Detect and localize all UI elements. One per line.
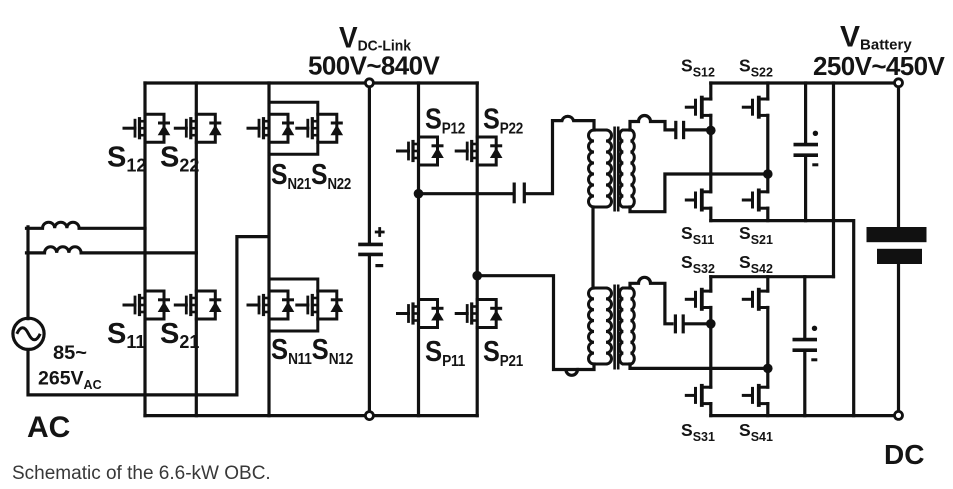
label 250V~450V xyxy=(813,51,945,81)
wire: SP leg 1 xyxy=(417,83,420,416)
svg-text:85~: 85~ xyxy=(53,342,87,364)
transistor SS31 xyxy=(686,386,711,405)
svg-text:500V~840V: 500V~840V xyxy=(308,51,440,81)
label 500V~840V xyxy=(308,51,440,81)
wire: SS leg3 segments xyxy=(709,277,712,416)
transistor S11 xyxy=(124,291,170,319)
wire: SS leg2 upper segments xyxy=(766,83,769,221)
wire: SS leg1 upper segments xyxy=(709,83,712,221)
label S22 xyxy=(160,141,199,175)
capacitor Co2 (output filter, lower) xyxy=(793,326,818,360)
transistor SS11 xyxy=(686,190,711,209)
wire: DC-link cap bottom leg xyxy=(368,256,371,411)
label V_Battery xyxy=(840,21,912,54)
transistor SP22 xyxy=(456,137,502,165)
svg-text:S11: S11 xyxy=(107,318,145,352)
node: SS leg4 transformer node xyxy=(763,364,773,374)
transformer T1 secondary winding xyxy=(620,130,635,207)
wire: battery rail top xyxy=(897,87,900,227)
capacitor Cs1 (secondary blocking, upper) xyxy=(676,121,684,139)
transistor SS21 xyxy=(743,190,768,209)
transistor SS42 xyxy=(743,290,768,309)
label SS12 xyxy=(681,56,715,80)
svg-text:VBattery: VBattery xyxy=(840,21,912,54)
wire: L1 output to phase leg 1 xyxy=(79,227,145,230)
svg-text:250V~450V: 250V~450V xyxy=(813,51,945,81)
svg-text:SS32: SS32 xyxy=(681,252,715,276)
wire: blocking cap to T1 primary top xyxy=(526,116,594,193)
node: SS leg3 cap node xyxy=(706,319,716,329)
svg-text:SP21: SP21 xyxy=(483,336,524,370)
wire: Co1 legs xyxy=(804,83,807,221)
label SN21 SN22 xyxy=(271,159,351,193)
transistor SN11 xyxy=(248,291,294,319)
node: SP leg2 midpoint xyxy=(472,271,482,281)
wire: T1 secondary top lead xyxy=(630,116,673,131)
label S12 xyxy=(107,141,146,175)
label S11 xyxy=(107,318,145,352)
transistor S12 xyxy=(124,114,170,142)
label DC xyxy=(884,439,924,470)
wire: AC hot riser xyxy=(26,227,29,319)
wire: SS lower-bridge top rail xyxy=(711,275,834,278)
node: battery negative port xyxy=(895,411,903,419)
label SS42 xyxy=(739,252,773,276)
transistor SP12 xyxy=(398,137,444,165)
battery VBattery xyxy=(867,227,927,264)
wire: Cs1 to SS leg1 node xyxy=(686,128,711,131)
svg-text:S21: S21 xyxy=(160,318,199,352)
node: DC-link positive port xyxy=(365,79,373,87)
svg-text:SS11: SS11 xyxy=(681,223,714,247)
label SS41 xyxy=(739,420,773,444)
wire: SS lower-bridge bottom rail xyxy=(711,414,895,417)
label SS32 xyxy=(681,252,715,276)
transistor SP11 xyxy=(398,300,444,328)
svg-text:S12: S12 xyxy=(107,141,146,175)
label SN11 SN12 xyxy=(271,334,353,368)
svg-text:SS21: SS21 xyxy=(739,223,773,247)
wire: SN11/SN12 paralleling loop xyxy=(269,279,318,331)
node: DC-link negative port xyxy=(365,412,373,420)
transistor SN22 xyxy=(297,114,343,142)
wire: T1 primary bottom to T2 primary top xyxy=(591,207,594,288)
transformer T1 core xyxy=(615,127,619,212)
caption xyxy=(12,463,271,484)
label AC xyxy=(27,411,70,444)
transistor SS22 xyxy=(743,98,768,117)
label SS11 xyxy=(681,223,714,247)
capacitor Cb (primary blocking) xyxy=(514,183,524,204)
wire: DC-link top rail (left) xyxy=(145,81,477,84)
label SS31 xyxy=(681,420,715,444)
svg-text:DC: DC xyxy=(884,439,924,470)
capacitor Co1 (output filter, upper) xyxy=(794,131,819,165)
label 85~ xyxy=(53,342,87,364)
wire: AC neutral to SN leg xyxy=(28,237,268,395)
inductor L2 (boost inductor, lower) xyxy=(27,247,82,253)
svg-text:SS31: SS31 xyxy=(681,420,715,444)
svg-text:S22: S22 xyxy=(160,141,199,175)
transistor SS32 xyxy=(686,290,711,309)
transformer T2 primary winding xyxy=(589,288,612,364)
transistor SN21 xyxy=(248,114,294,142)
svg-text:SP12: SP12 xyxy=(425,104,465,138)
transistor SN12 xyxy=(297,291,343,319)
svg-text:SN21SN22: SN21SN22 xyxy=(271,159,351,193)
svg-text:Schematic of the 6.6-kW OBC.: Schematic of the 6.6-kW OBC. xyxy=(12,463,271,484)
label SP12 xyxy=(425,104,465,138)
label SS21 xyxy=(739,223,773,247)
wire: SP leg2 midpoint to T2 primary bottom xyxy=(479,276,578,376)
transformer T2 core xyxy=(615,285,619,370)
wire: T2 secondary top lead xyxy=(630,277,672,324)
transformer T2 secondary winding xyxy=(620,288,635,364)
label V_DC-Link xyxy=(339,22,412,55)
wire: phase leg 1 xyxy=(143,83,146,416)
svg-text:SP11: SP11 xyxy=(425,336,466,370)
wire: phase leg 3 (SN leg) xyxy=(267,83,270,416)
transistor SS12 xyxy=(686,98,711,117)
transistor S22 xyxy=(175,114,221,142)
label S21 xyxy=(160,318,199,352)
node: SS leg2 transformer node xyxy=(763,169,773,179)
node: SP leg1 midpoint xyxy=(414,189,424,199)
wire: T2 secondary bottom lead xyxy=(630,364,765,368)
wire: T1 secondary bottom lead xyxy=(630,174,765,212)
wire: SN21/SN22 paralleling loop xyxy=(269,102,318,154)
wire: mid rail R1 (battery+ to lower bridge) xyxy=(832,83,835,277)
svg-text:SS22: SS22 xyxy=(739,56,773,80)
transformer T1 primary winding xyxy=(589,130,612,207)
label SP21 xyxy=(483,336,524,370)
wire: battery rail bottom xyxy=(897,264,900,411)
wire: SP leg1 midpoint to blocking cap xyxy=(419,192,513,195)
node: SS leg1 cap node xyxy=(706,126,716,136)
label SS22 xyxy=(739,56,773,80)
wire: SS leg4 segments xyxy=(766,277,769,416)
node: battery positive port xyxy=(895,79,903,87)
svg-text:SN11SN12: SN11SN12 xyxy=(271,334,353,368)
capacitor Cs2 (secondary blocking, lower) xyxy=(675,314,683,333)
svg-text:AC: AC xyxy=(27,411,70,444)
inductor L1 (boost inductor, upper) xyxy=(27,222,80,228)
wire: Cs2 to SS leg3 node xyxy=(685,322,711,325)
wire: battery top rail xyxy=(711,81,895,84)
wire: Co2 legs xyxy=(803,277,806,416)
wire: DC-link bottom rail (left) xyxy=(145,414,477,417)
svg-text:SP22: SP22 xyxy=(483,104,523,138)
svg-text:SS42: SS42 xyxy=(739,252,773,276)
transistor SS41 xyxy=(743,386,768,405)
transistor SP21 xyxy=(456,300,502,328)
svg-text:265VAC: 265VAC xyxy=(38,368,102,393)
wire: L2 output to phase leg 2 xyxy=(81,251,196,254)
label SP22 xyxy=(483,104,523,138)
wire: SP leg 2 xyxy=(476,83,479,416)
AC source VAC xyxy=(13,318,44,349)
wire: DC-link cap top leg xyxy=(368,87,371,243)
label 265VAC xyxy=(38,368,102,393)
label SP11 xyxy=(425,336,466,370)
transistor S21 xyxy=(175,291,221,319)
wire: SS top-bridge bottom rail and return xyxy=(711,221,854,416)
svg-text:SS12: SS12 xyxy=(681,56,715,80)
wire: T2 primary bottom lead xyxy=(578,364,594,370)
wire: phase leg 2 xyxy=(195,83,198,416)
svg-text:SS41: SS41 xyxy=(739,420,773,444)
capacitor Cdc (DC-link) xyxy=(358,227,384,266)
